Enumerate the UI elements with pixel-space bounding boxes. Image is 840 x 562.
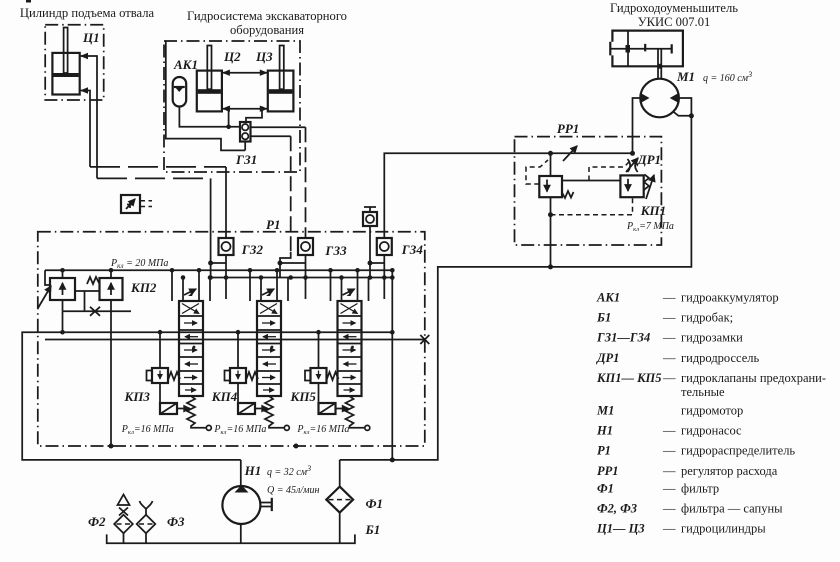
svg-text:гидрозамки: гидрозамки [681,331,743,345]
svg-text:КП5: КП5 [290,389,317,404]
svg-text:гидрораспределитель: гидрораспределитель [681,444,795,458]
svg-text:—: — [662,502,676,516]
svg-text:гидродроссель: гидродроссель [681,351,760,365]
svg-text:ГЗ1—ГЗ4: ГЗ1—ГЗ4 [596,331,650,345]
svg-text:М1: М1 [596,404,614,418]
svg-text:гидробак;: гидробак; [681,311,733,325]
svg-text:Ц3: Ц3 [255,49,273,64]
svg-text:М1: М1 [676,69,695,84]
svg-text:Гидроходоуменьшитель: Гидроходоуменьшитель [610,1,738,15]
svg-text:гидроклапаны предохрани-: гидроклапаны предохрани- [681,371,826,385]
svg-text:ГЗ3: ГЗ3 [324,243,347,258]
svg-text:РР1: РР1 [557,121,579,136]
svg-text:—: — [662,482,676,496]
svg-text:фильтра — сапуны: фильтра — сапуны [681,502,783,516]
svg-text:тельные: тельные [681,385,725,399]
svg-text:Q = 45л/мин: Q = 45л/мин [267,485,319,496]
svg-text:гидроаккумулятор: гидроаккумулятор [681,291,779,305]
svg-text:—: — [662,371,676,385]
svg-text:Ц1— Ц3: Ц1— Ц3 [596,522,645,536]
svg-text:КП3: КП3 [124,389,151,404]
svg-text:q = 32 см3: q = 32 см3 [267,464,311,478]
svg-text:ДР1: ДР1 [637,152,661,167]
svg-text:Ф2: Ф2 [88,514,106,529]
svg-text:гидроцилиндры: гидроцилиндры [681,522,766,536]
svg-text:Н1: Н1 [596,424,613,438]
svg-text:Н1: Н1 [244,463,262,478]
svg-text:Ц1: Ц1 [82,30,100,45]
svg-text:АК1: АК1 [596,291,620,305]
svg-text:—: — [662,522,676,536]
svg-text:КП1: КП1 [640,203,666,218]
svg-text:оборудования: оборудования [230,23,304,37]
svg-text:Р1: Р1 [597,444,611,458]
svg-text:—: — [662,311,676,325]
svg-text:Б1: Б1 [365,522,381,537]
svg-text:—: — [662,464,676,478]
svg-text:гидронасос: гидронасос [681,424,742,438]
svg-text:КП1— КП5: КП1— КП5 [596,371,662,385]
svg-text:Ф1: Ф1 [597,482,614,496]
svg-text:Ф2, Ф3: Ф2, Ф3 [597,502,637,516]
svg-text:УКИС 007.01: УКИС 007.01 [638,15,711,29]
svg-text:Б1: Б1 [596,311,611,325]
svg-text:—: — [662,424,676,438]
svg-text:—: — [662,291,676,305]
svg-text:—: — [662,331,676,345]
svg-text:—: — [662,351,676,365]
svg-text:ГЗ2: ГЗ2 [241,242,264,257]
svg-text:ДР1: ДР1 [596,351,619,365]
svg-text:АК1: АК1 [173,57,198,72]
svg-text:регулятор расхода: регулятор расхода [681,464,778,478]
svg-text:Цилиндр подъема отвала: Цилиндр подъема отвала [20,6,155,20]
svg-text:гидромотор: гидромотор [681,404,743,418]
svg-text:ГЗ1: ГЗ1 [235,152,257,167]
svg-text:—: — [662,444,676,458]
svg-text:q = 160 см3: q = 160 см3 [703,70,752,84]
svg-text:фильтр: фильтр [681,482,719,496]
svg-text:Р1: Р1 [266,217,280,232]
svg-text:Ф3: Ф3 [167,514,185,529]
svg-text:Гидросистема экскаваторного: Гидросистема экскаваторного [187,9,347,23]
svg-text:КП2: КП2 [130,280,157,295]
svg-text:Ф1: Ф1 [366,496,384,511]
svg-text:КП4: КП4 [211,389,238,404]
svg-text:РР1: РР1 [597,464,619,478]
svg-text:ГЗ4: ГЗ4 [401,242,424,257]
svg-text:Ц2: Ц2 [223,49,241,64]
